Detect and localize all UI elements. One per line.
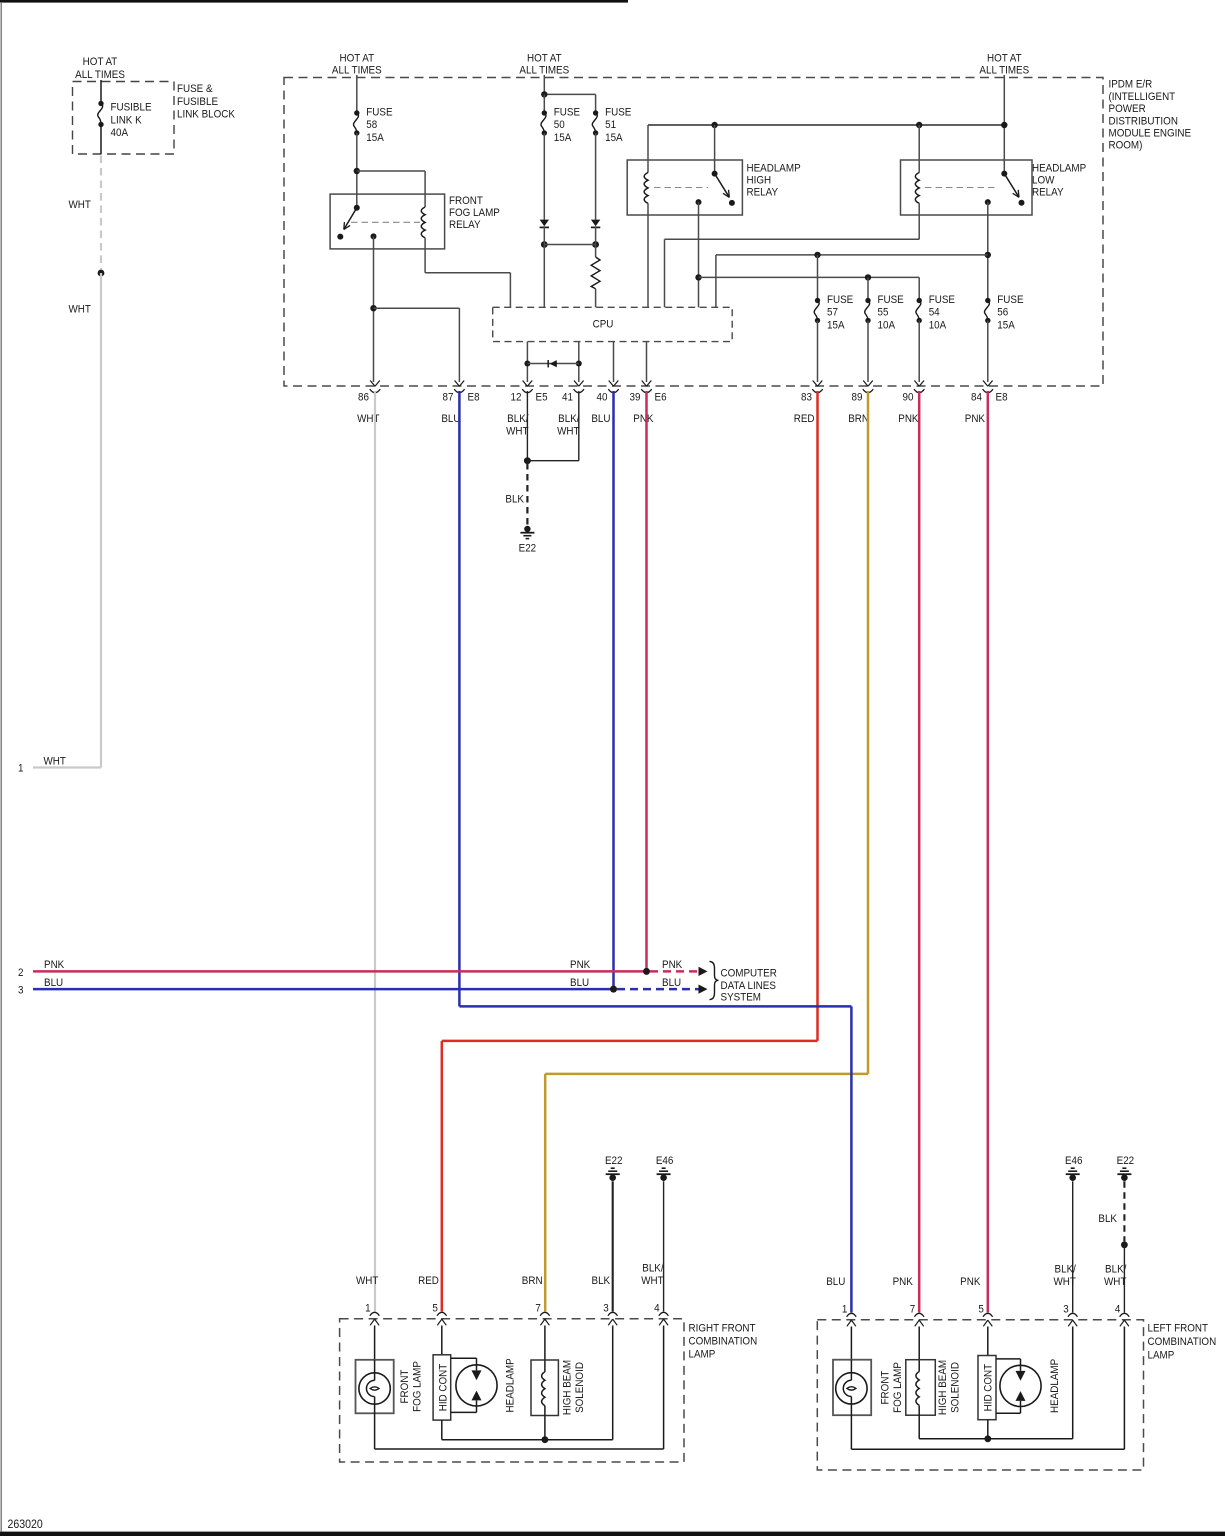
svg-text:40A: 40A <box>111 126 129 139</box>
svg-text:ALL TIMES: ALL TIMES <box>75 68 125 81</box>
svg-text:ROOM): ROOM) <box>1109 139 1143 152</box>
svg-text:15A: 15A <box>366 131 384 144</box>
svg-text:HID CONT: HID CONT <box>437 1363 450 1411</box>
svg-text:4: 4 <box>654 1302 660 1315</box>
svg-text:RELAY: RELAY <box>747 186 779 199</box>
svg-text:BLU: BLU <box>826 1276 845 1289</box>
svg-text:WHT: WHT <box>506 425 529 438</box>
svg-text:54: 54 <box>929 306 940 319</box>
svg-text:56: 56 <box>997 306 1008 319</box>
svg-text:FOG LAMP: FOG LAMP <box>891 1362 904 1413</box>
svg-text:BRN: BRN <box>522 1275 543 1288</box>
svg-text:HIGH: HIGH <box>747 174 772 187</box>
svg-text:COMBINATION: COMBINATION <box>689 1335 758 1348</box>
svg-text:FUSE: FUSE <box>605 106 631 119</box>
svg-text:BLU: BLU <box>591 412 610 425</box>
svg-text:BLK: BLK <box>505 493 524 506</box>
svg-text:7: 7 <box>535 1302 541 1315</box>
svg-text:CPU: CPU <box>593 318 614 331</box>
svg-text:BLU: BLU <box>44 976 63 989</box>
svg-text:WHT: WHT <box>44 755 67 768</box>
svg-text:RELAY: RELAY <box>449 219 481 232</box>
svg-text:PNK: PNK <box>960 1276 980 1289</box>
svg-text:PNK: PNK <box>898 412 918 425</box>
svg-text:E22: E22 <box>605 1154 623 1167</box>
svg-text:84: 84 <box>971 391 982 404</box>
svg-text:E6: E6 <box>655 391 667 404</box>
svg-text:PNK: PNK <box>44 959 64 972</box>
svg-text:15A: 15A <box>605 131 623 144</box>
svg-text:E22: E22 <box>519 542 537 555</box>
svg-text:WHT: WHT <box>1104 1276 1127 1289</box>
svg-text:10A: 10A <box>929 319 947 332</box>
svg-text:LOW: LOW <box>1032 174 1054 187</box>
svg-text:E46: E46 <box>1065 1154 1083 1167</box>
svg-text:LAMP: LAMP <box>689 1348 716 1361</box>
svg-text:FUSIBLE: FUSIBLE <box>111 101 152 114</box>
svg-text:PNK: PNK <box>570 959 590 972</box>
svg-text:15A: 15A <box>554 131 572 144</box>
svg-text:39: 39 <box>630 391 641 404</box>
svg-text:ALL TIMES: ALL TIMES <box>979 64 1029 77</box>
svg-text:3: 3 <box>18 984 24 997</box>
svg-text:WHT: WHT <box>357 412 380 425</box>
svg-text:FUSE: FUSE <box>997 293 1023 306</box>
svg-text:E8: E8 <box>996 391 1008 404</box>
svg-text:3: 3 <box>603 1302 609 1315</box>
svg-text:BRN: BRN <box>848 412 869 425</box>
svg-text:E8: E8 <box>468 391 480 404</box>
svg-text:FRONT: FRONT <box>879 1370 892 1404</box>
svg-text:FUSE: FUSE <box>366 106 392 119</box>
svg-text:51: 51 <box>605 119 616 132</box>
svg-text:BLK/: BLK/ <box>1105 1263 1126 1276</box>
svg-text:BLU: BLU <box>441 412 460 425</box>
svg-text:WHT: WHT <box>557 425 580 438</box>
svg-text:PNK: PNK <box>893 1276 913 1289</box>
svg-text:DISTRIBUTION: DISTRIBUTION <box>1109 115 1178 128</box>
svg-text:E22: E22 <box>1117 1154 1135 1167</box>
svg-text:POWER: POWER <box>1109 103 1147 116</box>
svg-text:FRONT: FRONT <box>398 1369 411 1403</box>
svg-text:58: 58 <box>366 119 377 132</box>
svg-text:55: 55 <box>878 306 889 319</box>
svg-text:10A: 10A <box>878 319 896 332</box>
svg-text:HOT AT: HOT AT <box>527 52 562 65</box>
svg-text:1: 1 <box>365 1302 371 1315</box>
svg-text:BLK: BLK <box>592 1275 611 1288</box>
svg-text:ALL TIMES: ALL TIMES <box>332 64 382 77</box>
svg-text:FOG LAMP: FOG LAMP <box>449 206 500 219</box>
svg-text:E46: E46 <box>656 1154 674 1167</box>
svg-text:BLK: BLK <box>1098 1212 1117 1225</box>
svg-text:HID CONT: HID CONT <box>982 1363 995 1411</box>
svg-text:BLU: BLU <box>570 976 589 989</box>
svg-text:1: 1 <box>18 762 24 775</box>
svg-text:41: 41 <box>562 391 573 404</box>
svg-text:86: 86 <box>358 391 369 404</box>
svg-text:4: 4 <box>1115 1303 1121 1316</box>
svg-text:FOG LAMP: FOG LAMP <box>411 1361 424 1412</box>
svg-text:89: 89 <box>852 391 863 404</box>
svg-text:ALL TIMES: ALL TIMES <box>519 64 569 77</box>
svg-text:HEADLAMP: HEADLAMP <box>504 1358 517 1412</box>
svg-text:1: 1 <box>842 1303 848 1316</box>
svg-text:HOT AT: HOT AT <box>339 52 374 65</box>
svg-text:50: 50 <box>554 119 565 132</box>
svg-text:E5: E5 <box>536 391 548 404</box>
svg-text:RIGHT FRONT: RIGHT FRONT <box>689 1322 757 1335</box>
svg-text:7: 7 <box>910 1303 916 1316</box>
svg-text:2: 2 <box>18 966 24 979</box>
svg-text:83: 83 <box>801 391 812 404</box>
svg-text:LEFT FRONT: LEFT FRONT <box>1148 1322 1209 1335</box>
svg-text:PNK: PNK <box>965 412 985 425</box>
svg-text:WHT: WHT <box>69 198 92 211</box>
svg-text:87: 87 <box>443 391 454 404</box>
svg-text:57: 57 <box>827 306 838 319</box>
svg-text:SOLENOID: SOLENOID <box>949 1362 962 1413</box>
svg-text:IPDM E/R: IPDM E/R <box>1109 78 1153 91</box>
svg-text:5: 5 <box>978 1303 984 1316</box>
svg-text:WHT: WHT <box>69 303 92 316</box>
svg-text:SYSTEM: SYSTEM <box>721 991 761 1004</box>
svg-text:FUSE: FUSE <box>929 293 955 306</box>
svg-text:MODULE ENGINE: MODULE ENGINE <box>1109 127 1192 140</box>
svg-text:HEADLAMP: HEADLAMP <box>1032 162 1086 175</box>
svg-text:COMBINATION: COMBINATION <box>1148 1335 1217 1348</box>
svg-text:LAMP: LAMP <box>1148 1349 1175 1362</box>
svg-text:FUSE &: FUSE & <box>177 83 213 96</box>
svg-text:HEADLAMP: HEADLAMP <box>1048 1359 1061 1413</box>
svg-text:12: 12 <box>511 391 522 404</box>
svg-text:FRONT: FRONT <box>449 194 483 207</box>
svg-text:40: 40 <box>597 391 608 404</box>
svg-text:FUSE: FUSE <box>554 106 580 119</box>
svg-text:BLU: BLU <box>662 976 681 989</box>
svg-text:WHT: WHT <box>641 1275 664 1288</box>
svg-text:HOT AT: HOT AT <box>987 52 1022 65</box>
svg-text:RED: RED <box>794 412 815 425</box>
svg-text:COMPUTER: COMPUTER <box>721 967 778 980</box>
svg-text:SOLENOID: SOLENOID <box>573 1362 586 1413</box>
svg-text:FUSE: FUSE <box>827 293 853 306</box>
svg-text:RELAY: RELAY <box>1032 186 1064 199</box>
svg-text:BLK/: BLK/ <box>507 412 528 425</box>
svg-text:PNK: PNK <box>633 412 653 425</box>
svg-text:RED: RED <box>418 1275 439 1288</box>
svg-text:LINK K: LINK K <box>111 114 142 127</box>
svg-text:FUSIBLE: FUSIBLE <box>177 95 218 108</box>
svg-text:BLK/: BLK/ <box>642 1262 663 1275</box>
svg-text:HEADLAMP: HEADLAMP <box>747 162 801 175</box>
svg-text:PNK: PNK <box>662 959 682 972</box>
svg-text:15A: 15A <box>997 319 1015 332</box>
svg-text:WHT: WHT <box>356 1275 379 1288</box>
svg-text:263020: 263020 <box>8 1518 43 1531</box>
svg-text:FUSE: FUSE <box>878 293 904 306</box>
svg-text:(INTELLIGENT: (INTELLIGENT <box>1109 90 1176 103</box>
svg-text:HIGH BEAM: HIGH BEAM <box>936 1360 949 1415</box>
svg-text:HOT AT: HOT AT <box>83 55 118 68</box>
svg-text:15A: 15A <box>827 319 845 332</box>
svg-text:HIGH BEAM: HIGH BEAM <box>561 1360 574 1415</box>
svg-text:5: 5 <box>432 1302 438 1315</box>
svg-text:LINK BLOCK: LINK BLOCK <box>177 108 235 121</box>
svg-text:BLK/: BLK/ <box>558 412 579 425</box>
svg-text:3: 3 <box>1063 1303 1069 1316</box>
svg-text:90: 90 <box>903 391 914 404</box>
